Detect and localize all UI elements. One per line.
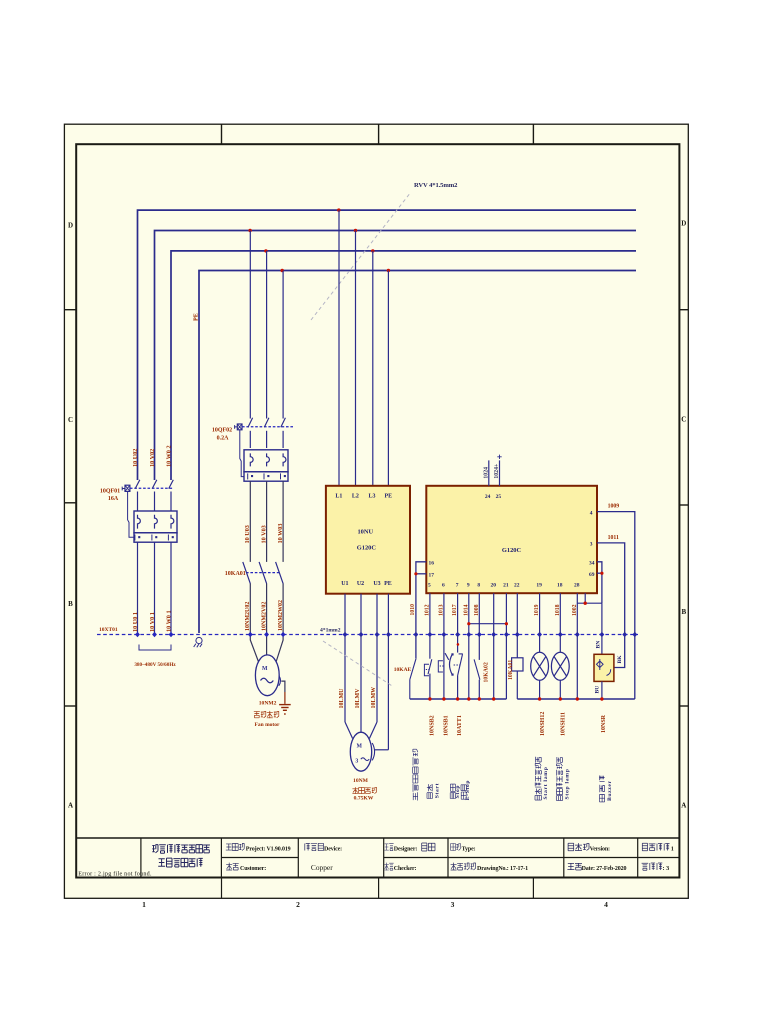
svg-text:PE: PE (384, 493, 392, 499)
svg-text:M: M (262, 666, 268, 672)
svg-text:18: 18 (557, 583, 563, 589)
svg-text:U3: U3 (373, 581, 380, 587)
svg-text:BK: BK (617, 655, 623, 664)
svg-text:5: 5 (428, 583, 431, 589)
svg-text:Buzzer: Buzzer (607, 780, 613, 801)
svg-text:L2: L2 (352, 493, 359, 499)
wire fan L3 drop (266, 251, 268, 419)
svg-text:PE: PE (192, 313, 199, 321)
svg-text:C: C (681, 416, 686, 424)
svg-text:10KA01: 10KA01 (508, 660, 514, 680)
G120C bottom pin numbers (428, 583, 580, 589)
svg-text:1012: 1012 (424, 604, 430, 616)
svg-text:10NM2U02: 10NM2U02 (245, 602, 251, 631)
svg-text:Version:: Version: (590, 846, 610, 852)
svg-text:22: 22 (514, 583, 520, 589)
wire buzzer bottom (601, 681, 603, 699)
svg-text:E-Stop: E-Stop (465, 780, 471, 800)
motor 10NM2 sine (261, 678, 274, 683)
wire pin69 (597, 572, 602, 574)
pushbutton 10NSB2 (424, 659, 431, 676)
svg-text:Start: Start (435, 783, 441, 798)
label stop cn (450, 784, 455, 798)
svg-text:C: C (68, 416, 73, 424)
breaker 10QF01 (122, 480, 173, 537)
wire stub pin28b (584, 593, 586, 603)
label main motor chinese (352, 787, 376, 794)
svg-text:10 U0 1: 10 U0 1 (132, 612, 139, 632)
label fan motor chinese (254, 711, 279, 718)
svg-text:19: 19 (536, 583, 542, 589)
wire buzzer feed (601, 603, 603, 654)
svg-text:10KA01: 10KA01 (225, 571, 246, 577)
svg-text:17: 17 (429, 572, 435, 578)
ground (279, 705, 291, 711)
svg-text:M: M (357, 744, 363, 750)
node pin69 join (600, 572, 603, 575)
node jumper left (467, 622, 470, 625)
svg-text:Start lamp: Start lamp (543, 766, 549, 799)
svg-text:10 V0 1: 10 V0 1 (149, 612, 156, 632)
node stub join (584, 602, 587, 605)
svg-text:1: 1 (142, 900, 146, 909)
title device cn (305, 843, 324, 850)
svg-text:1002: 1002 (572, 604, 578, 616)
contact 10ATT1 (458, 654, 463, 675)
svg-text:28: 28 (574, 583, 580, 589)
label buzzer cn (600, 776, 605, 802)
svg-text:21: 21 (503, 583, 509, 589)
wire pin34 (597, 562, 602, 603)
wire pin17 (416, 573, 426, 575)
breaker 10QF02 thermal block (244, 450, 288, 481)
wires to 10KA01 (250, 481, 283, 562)
wire bus PE (199, 271, 636, 634)
svg-text:RVV 4*1.5mm2: RVV 4*1.5mm2 (414, 182, 458, 189)
svg-text:10 V03: 10 V03 (260, 525, 267, 543)
title block frame (76, 838, 679, 898)
svg-text:10LMV: 10LMV (355, 688, 361, 709)
inner frame (76, 144, 679, 877)
label start cn (427, 784, 433, 798)
svg-text:BN: BN (596, 641, 602, 649)
wires 10NU outputs (345, 594, 388, 750)
svg-text:10LMU: 10LMU (339, 688, 345, 709)
leader dashed RVV (311, 192, 411, 320)
svg-text:Device:: Device: (324, 846, 342, 852)
svg-text:20: 20 (490, 583, 496, 589)
svg-text:9: 9 (467, 583, 470, 589)
label spindle estop signal (413, 749, 418, 801)
title date cn (567, 863, 582, 870)
terminal line 10XT01 (97, 634, 638, 636)
svg-text:4: 4 (604, 900, 608, 909)
svg-text:10NM: 10NM (353, 778, 369, 784)
svg-text:10ATT1: 10ATT1 (457, 715, 463, 736)
svg-text:34: 34 (589, 560, 595, 566)
svg-text:3: 3 (590, 541, 593, 547)
svg-text:10 U03: 10 U03 (244, 525, 251, 543)
lamp 10NSH11 (551, 652, 569, 680)
wire jumper 1014-21 (469, 623, 507, 625)
wire pin16 (416, 562, 426, 658)
svg-text:Type:: Type: (462, 846, 476, 852)
wires bus to 10NU (339, 210, 388, 486)
wire gaps covered: verticals 10QF01 to thermal (138, 492, 172, 512)
svg-text:24: 24 (485, 494, 491, 500)
svg-text:10QF02: 10QF02 (212, 427, 232, 433)
title page cn (642, 843, 669, 850)
svg-text:G120C: G120C (357, 545, 377, 552)
svg-text:4: 4 (590, 510, 593, 516)
title designer cn (384, 844, 393, 851)
svg-text:10NSB1: 10NSB1 (444, 715, 450, 736)
title company line2 (158, 858, 203, 867)
svg-text:B: B (681, 608, 686, 616)
voltage bracket (139, 645, 171, 651)
svg-text:Designer:: Designer: (394, 846, 418, 852)
svg-text:1013: 1013 (438, 604, 444, 616)
pushbutton 10NSB1 mushroom (438, 653, 460, 676)
svg-text:10KA02: 10KA02 (483, 662, 489, 682)
wire fan motor leads (250, 636, 283, 662)
svg-text:10KAE: 10KAE (394, 667, 412, 673)
svg-text:10NM2: 10NM2 (259, 701, 277, 707)
title drawingno cn (451, 863, 476, 871)
device G120C (426, 486, 597, 593)
svg-text:L1: L1 (335, 493, 342, 499)
svg-text:U1: U1 (341, 581, 348, 587)
nodes on buses (428, 697, 603, 700)
node pin17 join (414, 572, 417, 575)
G120C top stub 24 (488, 460, 490, 485)
svg-text:1009: 1009 (608, 504, 620, 510)
svg-text:Fan motor: Fan motor (255, 722, 280, 728)
svg-text:10NM2W02: 10NM2W02 (278, 600, 284, 631)
motor 10NM2 PE arc (279, 675, 281, 685)
svg-text:1: 1 (671, 845, 674, 852)
node taps on bus lines (248, 208, 390, 272)
wire PE to motor (375, 749, 389, 751)
svg-text:10QF01: 10QF01 (100, 489, 120, 495)
svg-text:8: 8 (477, 583, 480, 589)
svg-text:: 3: : 3 (663, 865, 670, 872)
svg-text:B: B (68, 600, 73, 608)
svg-text:10 W03: 10 W03 (277, 524, 284, 544)
svg-text:10NSB2: 10NSB2 (430, 715, 436, 736)
svg-text:BU: BU (595, 686, 601, 694)
zone letters right (681, 220, 686, 810)
motor 10NM 3~ mark (355, 758, 369, 764)
svg-text:Customer:: Customer: (240, 866, 266, 872)
svg-text:0.2A: 0.2A (217, 436, 230, 442)
svg-text:1017: 1017 (452, 604, 458, 616)
svg-text:2: 2 (296, 900, 300, 909)
svg-text:D: D (681, 220, 686, 228)
svg-text:D: D (68, 222, 73, 230)
svg-text:10NSH11: 10NSH11 (561, 712, 567, 736)
zone ticks top (222, 124, 534, 144)
contactor 10KA01 poles (243, 562, 283, 584)
svg-text:4*1mm2: 4*1mm2 (320, 627, 341, 633)
svg-text:69: 69 (589, 572, 595, 578)
title designer name (422, 843, 435, 851)
svg-text:PE: PE (384, 581, 392, 587)
svg-text:1019: 1019 (534, 604, 540, 616)
sheet background (64, 124, 688, 898)
svg-text:1008: 1008 (474, 604, 480, 616)
svg-text:25: 25 (496, 494, 502, 500)
wire fan L2 drop (249, 231, 251, 419)
coil 10KA01 (512, 658, 523, 671)
label stop lamp cn (556, 757, 562, 800)
motor 10NM2 (255, 655, 279, 696)
wires 10KA01 to fan motor (250, 584, 283, 637)
wire motor leads 10NM (345, 722, 377, 739)
svg-text:10 W0 1: 10 W0 1 (165, 610, 172, 632)
zone ticks left (64, 310, 76, 706)
svg-text:Date: 27-Feb-2020: Date: 27-Feb-2020 (582, 866, 627, 872)
svg-text:1018: 1018 (555, 604, 561, 616)
wire 1009 pin4 (597, 512, 635, 699)
wires 10QF02 to thermal (250, 431, 283, 448)
svg-text:10LMW: 10LMW (371, 687, 377, 709)
title project cn (226, 844, 245, 851)
svg-text:A: A (681, 802, 686, 810)
bus control right (517, 698, 635, 700)
svg-text:1011: 1011 (608, 535, 619, 541)
svg-text:10 W0 2: 10 W0 2 (165, 445, 172, 467)
svg-text:0.75KW: 0.75KW (354, 796, 374, 802)
title version cn (568, 843, 589, 851)
svg-text:Error : 2.jpg file not found.: Error : 2.jpg file not found. (78, 870, 152, 877)
G120C top stub 25 (497, 455, 501, 486)
buzzer 10NSR (594, 654, 614, 681)
wire ground lower (284, 692, 286, 704)
svg-text:10XT01: 10XT01 (99, 627, 118, 633)
svg-text:1024+: 1024+ (494, 464, 500, 479)
label start lamp cn (535, 757, 542, 800)
svg-text:16: 16 (429, 560, 435, 566)
wire bus L3 (171, 251, 636, 480)
wires below lamps (517, 671, 560, 699)
svg-text:1010: 1010 (410, 604, 416, 616)
svg-text:380~480V 50/60Hz: 380~480V 50/60Hz (134, 662, 176, 668)
wire fan PE drop (282, 271, 284, 419)
svg-text:10NM2V02: 10NM2V02 (261, 602, 267, 631)
svg-text:Project: V1.90.019: Project: V1.90.019 (246, 846, 291, 852)
control wires from G120C bottom (430, 593, 577, 699)
svg-text:G120C: G120C (502, 547, 522, 554)
svg-text:DrawingNo.: 17-17-1: DrawingNo.: 17-17-1 (477, 866, 528, 872)
zone numbers bottom (142, 900, 608, 909)
svg-text:3: 3 (355, 758, 358, 764)
svg-text:6: 6 (442, 583, 445, 589)
wires 10QF01 down to terminals (138, 542, 172, 634)
title total pages cn (642, 863, 663, 870)
title checker cn (384, 863, 393, 871)
svg-text:10 U02: 10 U02 (132, 449, 139, 467)
svg-text:1024: 1024 (483, 467, 489, 479)
svg-text:16A: 16A (108, 496, 119, 502)
zone letters left (68, 222, 73, 810)
svg-text:10NSH12: 10NSH12 (540, 712, 546, 736)
breaker 10QF02 (234, 418, 293, 477)
title company line1 (152, 845, 210, 854)
label estop cn (461, 785, 466, 799)
svg-text:Copper: Copper (311, 863, 333, 872)
svg-text:10NU: 10NU (357, 529, 373, 536)
lamp 10NSH12 (531, 652, 549, 680)
wire 1011 pin3 (597, 543, 625, 668)
svg-text:Checker:: Checker: (394, 866, 417, 872)
contact 10KAE (410, 658, 416, 699)
svg-text:3: 3 (451, 900, 455, 909)
svg-text:A: A (68, 802, 73, 810)
label 10QF02 (212, 427, 232, 441)
motor 10NM (350, 732, 371, 771)
wire bus L1 (138, 210, 637, 480)
wire jumper to buzzer (577, 602, 602, 604)
wire bus L2 (155, 231, 637, 481)
bus control left (410, 698, 507, 700)
PE terminal bell (194, 637, 202, 647)
wire motor to ground (281, 681, 285, 692)
terminal diamonds (135, 632, 637, 638)
leader dashed 4*1mm2 (323, 641, 393, 687)
contact 10KA02 (474, 659, 480, 679)
node wire 1017 mark (457, 643, 460, 646)
motor 10NM PE arc (372, 743, 374, 760)
svg-text:L3: L3 (368, 493, 375, 499)
svg-text:Stop: Stop (455, 785, 461, 799)
label 10QF01 (100, 489, 120, 502)
svg-text:10NSR: 10NSR (601, 714, 607, 733)
breaker 10QF01 thermal block (134, 511, 177, 542)
svg-text:10 V02: 10 V02 (149, 449, 156, 467)
svg-text:Stop lamp: Stop lamp (564, 768, 570, 799)
svg-text:7: 7 (456, 583, 459, 589)
device 10NU (326, 486, 410, 594)
title type cn (451, 844, 461, 851)
node jumper right (505, 622, 508, 625)
wire 10U02 drop (137, 478, 139, 481)
zone ticks right (679, 310, 688, 706)
svg-text:U2: U2 (357, 581, 364, 587)
svg-text:1014: 1014 (463, 604, 469, 616)
title customer cn (226, 863, 239, 871)
